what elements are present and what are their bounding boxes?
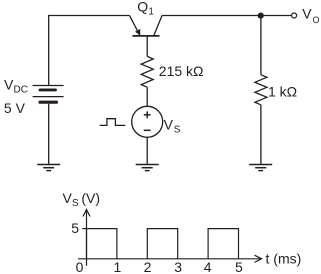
x-axis arrowhead <box>255 255 262 262</box>
wire junction to load resistor <box>260 16 262 75</box>
source plus sign <box>144 111 151 118</box>
transistor Q1 base lead <box>146 36 148 57</box>
resistor 215 kOhm <box>141 56 153 87</box>
label Vo <box>302 5 319 25</box>
svg-text:Q: Q <box>137 0 148 14</box>
ground (center) <box>136 165 159 171</box>
resistor 1 kOhm <box>255 75 267 105</box>
ground (right) <box>249 165 272 171</box>
pulse 1 (0-1 ms) <box>87 229 117 259</box>
battery V_DC plate long middle <box>33 96 64 98</box>
svg-text:215 kΩ: 215 kΩ <box>159 63 204 79</box>
pulse 2 (2-3 ms) <box>147 229 177 259</box>
label Vs <box>164 116 181 135</box>
svg-text:DC: DC <box>14 85 28 96</box>
transistor Q1 base bar <box>133 35 160 37</box>
label Vs (V) axis title <box>63 190 101 209</box>
source minus sign <box>144 129 151 131</box>
pulse 3 (4-5 ms) <box>208 229 238 259</box>
y-axis arrowhead <box>83 210 90 217</box>
svg-text:(V): (V) <box>81 190 100 206</box>
battery V_DC plate long top <box>33 85 64 87</box>
transistor Q1 emitter arrowhead <box>135 29 140 35</box>
svg-text:1 kΩ: 1 kΩ <box>268 83 297 99</box>
wire battery bottom to ground <box>48 104 50 165</box>
svg-text:5: 5 <box>71 220 79 236</box>
wire source to ground <box>146 137 148 164</box>
svg-text:5 V: 5 V <box>4 100 26 116</box>
svg-text:1: 1 <box>148 7 154 18</box>
svg-text:t (ms): t (ms) <box>266 250 302 266</box>
svg-text:O: O <box>313 15 320 25</box>
transistor Q1 emitter line <box>130 15 140 35</box>
svg-text:V: V <box>4 77 14 93</box>
wire load resistor to ground <box>260 105 262 165</box>
ground (left) <box>37 165 60 171</box>
svg-text:S: S <box>72 198 79 209</box>
svg-text:0: 0 <box>76 259 84 274</box>
svg-text:V: V <box>164 116 174 132</box>
source V_S circle <box>132 106 163 137</box>
svg-text:3: 3 <box>174 259 182 274</box>
svg-text:1: 1 <box>114 259 122 274</box>
transistor Q1 collector line <box>154 15 162 36</box>
graph axes <box>78 210 262 266</box>
node junction dot <box>258 13 264 19</box>
svg-text:V: V <box>302 5 312 21</box>
pulse waveform icon <box>100 119 126 126</box>
label VDC <box>4 77 28 96</box>
tick at 5 <box>82 228 86 230</box>
y-axis <box>86 210 88 266</box>
svg-text:4: 4 <box>204 259 212 274</box>
svg-text:S: S <box>174 125 181 136</box>
battery V_DC plate short thick 2 <box>40 101 57 104</box>
svg-text:5: 5 <box>235 259 243 274</box>
wire resistor to source <box>146 87 148 106</box>
x-axis <box>78 258 261 260</box>
wire top rail right segment <box>162 15 291 17</box>
svg-text:2: 2 <box>144 259 152 274</box>
battery V_DC plate short thick 1 <box>40 88 56 91</box>
output terminal circle Vo <box>292 13 297 18</box>
wire top rail left segment <box>49 16 130 86</box>
svg-text:V: V <box>63 190 73 206</box>
label Q1 <box>137 0 154 18</box>
